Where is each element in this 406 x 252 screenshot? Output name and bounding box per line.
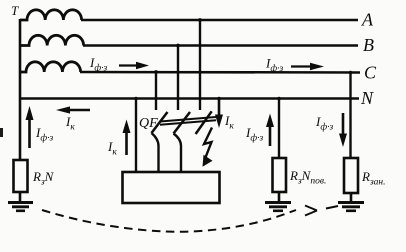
current arrow I_f-z down at fault branch [315,113,347,147]
wire resistor R_zN_pov to ground [278,192,281,202]
current arrow I_k down from N at breaker output [215,99,234,132]
svg-text:C: C [364,63,377,83]
current arrow I_f-z up at repeated ground [245,114,274,147]
junction on C [154,70,158,74]
resistor R_zN_pov [273,158,287,192]
junction on B [176,44,180,48]
wire breaker pole1 to load box [152,133,159,172]
dashed earth current path [42,210,296,232]
breaker QF pole 1 blade [152,112,168,133]
wire resistor R_zan to ground [350,193,353,202]
wire breaker pole2 to load box [174,134,182,173]
wire N to resistor R_zN_pov [278,99,280,159]
wire line A [81,19,358,22]
wire resistor R_zN to ground [19,192,22,202]
junction on A [198,18,202,22]
protective wire load box to N [135,99,137,173]
svg-text:N: N [360,88,374,108]
wire line B [83,44,358,47]
wire fault branch from C to R_zan [349,73,351,159]
ground at R_zN_pov [265,203,291,211]
load box (equipment case) [123,172,220,203]
ground at R_zN [8,203,33,211]
neutral star-point bus (left vertical wire) [19,19,22,160]
wire line N [20,97,359,100]
transformer winding phase A [20,10,82,20]
transformer winding phase C [20,62,81,72]
resistor R_zN [14,160,28,192]
fault lightning arrow to case [203,128,213,167]
svg-text:T: T [11,3,19,18]
junction C with fault wire [349,71,353,75]
transformer winding phase B [20,35,84,45]
dashed path final dash [326,206,338,209]
wire drop from A to breaker [199,20,201,110]
junction N with protective wire [134,97,138,101]
current arrow I_k left along N [56,106,90,132]
dashed path arrowhead [305,206,317,216]
junction N at I_k stub [217,97,221,101]
wire line C [80,71,360,74]
wire drop from B to breaker [177,46,179,111]
svg-text:B: B [363,35,374,55]
breaker QF trip bar [160,117,216,125]
current arrow I_f-z up at left bus [26,106,54,148]
junction N with repeated-ground wire [277,97,281,101]
wire drop from C to breaker [155,72,157,110]
breaker QF pole 2 blade [174,112,191,134]
breaker QF pole 3 blade [196,111,212,134]
current arrow I_f-z on line C (right) [265,56,324,75]
current arrow I_f-z on line C (middle) [89,55,149,74]
current arrow I_k up along protective wire [107,120,131,158]
ground at R_zan [338,203,364,211]
scan artifact at left edge [0,128,3,137]
svg-text:A: A [361,10,374,30]
resistor R_zan [344,158,358,193]
